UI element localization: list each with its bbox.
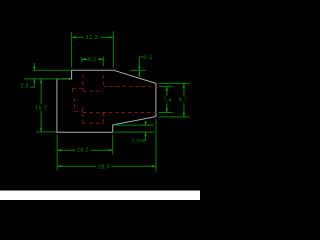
hidden hole right wall — [102, 75, 104, 124]
svg-text:9,7: 9,7 — [179, 98, 188, 104]
dim 7,4 extension lines — [159, 86, 173, 112]
dim 15,7 line — [40, 79, 42, 132]
hidden hole bottom line — [83, 122, 103, 124]
arrows dim 0,5 — [138, 66, 140, 70]
dim 2,5 extension top — [33, 69, 70, 71]
dim 7,4 line — [166, 86, 168, 112]
dim 16,2 line — [57, 149, 112, 151]
svg-text:28,9: 28,9 — [98, 164, 110, 170]
dim 12,2 extension lines — [72, 31, 114, 67]
arrows dim 16,2 — [57, 149, 61, 151]
hidden hole left wall — [82, 75, 84, 124]
dim 6,1 line — [82, 58, 104, 60]
dim 9,7 extension lines — [159, 83, 190, 117]
svg-text:2,0: 2,0 — [131, 139, 140, 145]
arrows dim 6,1 — [82, 58, 86, 60]
svg-text:6,1: 6,1 — [88, 57, 97, 63]
hidden small bore bottom line left — [75, 111, 84, 113]
arrows dim 28,9 — [57, 165, 61, 167]
dim 15,7 extension bottom — [36, 131, 56, 133]
dim 0,5 leader vertical — [139, 57, 143, 77]
svg-text:2,5: 2,5 — [20, 83, 29, 89]
dim 9,7 line — [183, 83, 185, 117]
arrow dim 15,7 bottom — [40, 128, 42, 132]
dim 2,5 extension bottom — [24, 78, 69, 80]
arrows dim 2,0 — [145, 121, 147, 125]
dim 28,9 extension line right — [155, 119, 157, 172]
arrows dim 9,7 — [183, 83, 185, 87]
part outline — [57, 70, 156, 132]
dim 6,1 extension lines — [82, 57, 104, 66]
svg-text:7,4: 7,4 — [163, 98, 172, 104]
arrow dim 15,7 top — [40, 79, 42, 83]
white bottom band — [0, 191, 200, 201]
hidden small bore left end upper — [72, 88, 74, 93]
hidden bore top line right section — [103, 85, 156, 87]
arrows dim 2,5 — [33, 67, 35, 71]
arrows dim 12,2 — [72, 36, 76, 38]
svg-text:15,7: 15,7 — [35, 106, 47, 112]
dim 0,5 extension line — [130, 69, 145, 71]
dim 2,0 extension lines — [115, 125, 155, 132]
hidden small bore top line left — [73, 87, 84, 89]
dim 12,2 line — [72, 36, 114, 38]
arrows dim 7,4 — [166, 86, 168, 90]
svg-text:12,2: 12,2 — [86, 35, 98, 41]
hidden small bore left end lower — [74, 98, 76, 112]
svg-text:16,2: 16,2 — [77, 147, 89, 153]
svg-text:0,5: 0,5 — [144, 55, 153, 61]
hidden bore bottom line — [83, 112, 156, 114]
dim 2,0 arrow lines and elbow — [141, 122, 146, 141]
black drawing background — [0, 0, 200, 200]
dim 16,2 extension lines — [57, 135, 112, 171]
dim 2,5 arrow lines and elbow — [30, 63, 34, 87]
dim 28,9 line — [57, 165, 156, 167]
hidden counterbore bottom line — [83, 90, 103, 92]
